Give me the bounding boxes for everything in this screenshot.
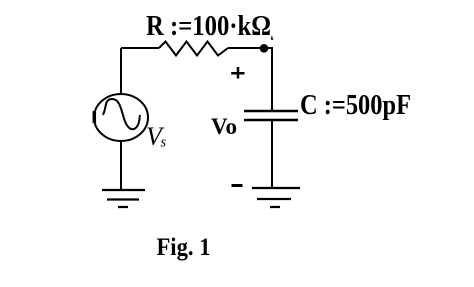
svg-text:R :=100·kΩ: R :=100·kΩ	[146, 11, 271, 42]
label minus polarity	[232, 184, 243, 187]
label Vo	[211, 114, 237, 139]
voltage source sine wave	[103, 99, 140, 129]
wire top-left horizontal	[121, 47, 159, 49]
svg-text:s: s	[161, 135, 167, 151]
wire source to ground	[120, 141, 122, 190]
wire capacitor to ground	[271, 120, 273, 188]
label Vs	[146, 122, 167, 151]
label R value	[146, 11, 271, 42]
wire top-left vertical	[120, 48, 122, 94]
stray comma under ohm	[272, 36, 274, 39]
ground right	[252, 188, 300, 207]
svg-text:C :=500pF: C :=500pF	[300, 90, 411, 121]
capacitor C	[244, 111, 298, 120]
voltage source Vs circle	[94, 94, 148, 141]
wire resistor to node	[228, 47, 264, 49]
wire node down to capacitor	[264, 48, 272, 111]
resistor R	[159, 42, 228, 56]
svg-text:Fig. 1: Fig. 1	[157, 234, 211, 261]
node A junction dot	[260, 44, 269, 53]
ground left	[102, 190, 145, 207]
label plus polarity	[231, 67, 244, 79]
label figure caption	[157, 234, 211, 261]
svg-text:Vo: Vo	[211, 114, 237, 139]
voltage source left tick	[93, 111, 97, 123]
label C value	[300, 90, 411, 121]
